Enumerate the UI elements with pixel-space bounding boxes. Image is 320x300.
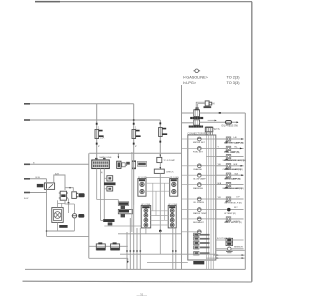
inner frame bottom <box>25 268 245 270</box>
fuel pump motor <box>59 191 68 200</box>
wire bundle vertical 3 <box>133 205 135 269</box>
wire stub left <box>101 220 103 222</box>
wire row y122.8 <box>182 122 194 124</box>
fuel pump relay label box <box>37 184 44 187</box>
right column row3 sedimenter lamp <box>216 155 246 163</box>
hour meter box <box>118 209 132 213</box>
lamp row y165.8 <box>182 164 244 171</box>
lamp row y218.9 <box>182 217 244 224</box>
wire to noise filter (double lead) <box>196 102 205 107</box>
inner bus wires <box>206 136 213 270</box>
svg-text:SENSOR: SENSOR <box>234 247 243 249</box>
svg-text:HOUR: HOUR <box>234 221 241 223</box>
lamp row y139.0 <box>182 137 244 144</box>
wire row y113 right to bus <box>200 112 246 114</box>
glyphs in stacked boxes <box>195 234 199 255</box>
lamp row y184.6 <box>182 183 244 190</box>
fuse F3 <box>159 122 168 142</box>
oil press sender (oval) <box>225 121 231 124</box>
svg-text:FUEL LAMP (R): FUEL LAMP (R) <box>225 151 240 154</box>
to fuel pump box C <box>160 155 162 157</box>
wire bundle vertical 2 <box>129 218 131 269</box>
lamp row y175.2 <box>182 173 244 180</box>
right column row5 sleep lamp <box>216 173 244 181</box>
junction left <box>46 230 48 232</box>
ignition coil component <box>194 110 200 117</box>
svg-text:I<GASOLINE>: I<GASOLINE> <box>183 76 209 80</box>
horn / buzzer circle <box>72 214 77 218</box>
label bar A <box>104 182 116 185</box>
spare comp square <box>121 206 125 210</box>
wire pair vertical b <box>175 228 177 269</box>
fuel pump relay <box>44 183 54 190</box>
fuse F2 <box>132 123 141 145</box>
svg-text:TO 2(3): TO 2(3) <box>227 76 241 80</box>
water temp sender component <box>205 127 213 132</box>
svg-text:OIL PRESS: OIL PRESS <box>193 202 205 204</box>
circled number 6 <box>195 69 199 73</box>
wire out bottom row c <box>206 257 244 259</box>
wires below main connector <box>97 169 101 221</box>
right column row6 warning lamp <box>216 183 244 191</box>
hour meter inner square <box>121 214 125 218</box>
aux connector 2 tab <box>122 163 125 167</box>
resistor box B <box>107 187 113 191</box>
svg-text:WARNING: WARNING <box>193 187 203 190</box>
lamp row y148.4 <box>182 146 244 153</box>
svg-text:F.CUT SOL (R): F.CUT SOL (R) <box>217 238 231 240</box>
svg-text:TO 3(3): TO 3(3) <box>227 81 241 85</box>
wire pump top link <box>65 188 74 191</box>
right column row9 lamp <box>216 217 244 223</box>
wire pin row link top strips b <box>146 190 170 192</box>
wire mesh vertical a <box>152 183 154 211</box>
labels right of stacked boxes <box>200 234 210 254</box>
svg-text:TO F.PUMP: TO F.PUMP <box>163 160 175 162</box>
resistor box A <box>107 176 113 181</box>
stub2 label start <box>24 178 30 180</box>
stacked boxes in lower connector box <box>194 233 199 255</box>
drop arrow <box>127 258 129 262</box>
svg-text:SEDIMENTER LAMP (R): SEDIMENTER LAMP (R) <box>223 159 247 162</box>
svg-text:METER SET: METER SET <box>193 142 206 144</box>
wire row y113 left <box>182 112 194 114</box>
svg-text:I<LPG>: I<LPG> <box>183 81 197 85</box>
stub3 label start <box>24 192 30 194</box>
svg-text:15A: 15A <box>100 137 105 140</box>
wire label start bus1 <box>24 103 30 105</box>
sender motor circle <box>54 212 61 219</box>
lead end dots <box>195 107 197 109</box>
strip3 bottom lead <box>145 228 147 234</box>
connector pin fill <box>93 161 108 167</box>
horizontal link y258.3 <box>89 257 128 259</box>
noise filter top component <box>205 101 212 106</box>
small square below <box>108 222 113 225</box>
fuse F1 <box>95 123 104 145</box>
wire pin row link bottom strips 3 <box>151 219 169 221</box>
wire bus B+ top <box>24 103 134 105</box>
pump connector label pill <box>79 193 85 197</box>
wire oil press sender row <box>200 121 238 123</box>
wire vertical to fuse F2 <box>133 104 135 205</box>
svg-text:MAIN FUSE: MAIN FUSE <box>100 156 112 159</box>
svg-text:OIL PRESS LP (R): OIL PRESS LP (R) <box>224 202 242 204</box>
wire relay to pump <box>54 175 65 190</box>
svg-text:GLOW LAMP: GLOW LAMP <box>193 177 206 180</box>
arrow box C to D <box>159 163 161 169</box>
svg-text:WARNING LAMP (R): WARNING LAMP (R) <box>223 187 243 190</box>
link to centre <box>47 235 89 237</box>
strip connector 2 <box>170 179 178 197</box>
lamp row y156.6 <box>206 155 244 162</box>
right column row4 charge lamp <box>216 164 244 172</box>
buzzer label pill <box>78 214 84 218</box>
wire code marks right column <box>218 137 239 199</box>
main harness connector <box>92 159 110 169</box>
svg-text:CHARGE: CHARGE <box>193 168 203 171</box>
lamp row y209.6 <box>182 208 244 215</box>
sender leads into connector box <box>207 132 213 135</box>
page top border <box>35 1 252 3</box>
svg-text:W.T.S: W.T.S <box>214 129 220 131</box>
svg-text:FUEL SET: FUEL SET <box>193 152 204 154</box>
wire out bottom row a <box>216 249 245 251</box>
connector relay box <box>188 135 216 260</box>
svg-text:CHECK: CHECK <box>166 172 174 174</box>
wire y226 to strip3 <box>104 225 141 227</box>
wire main vertical right section <box>181 85 183 269</box>
left long vertical wire <box>88 153 90 258</box>
svg-text:CHARGE LAMP (R): CHARGE LAMP (R) <box>223 168 242 171</box>
horizontal link y233.8 <box>118 233 182 235</box>
svg-text:GLOW LAMP (R): GLOW LAMP (R) <box>225 178 241 181</box>
spare comp row label <box>118 202 128 206</box>
main harness connector top wire <box>89 152 181 154</box>
thermo sensor symbol <box>216 247 244 253</box>
wire pin row link bottom strips 4 <box>151 224 169 226</box>
sender connector wire with ticks <box>68 199 70 214</box>
wire mesh vertical c <box>164 183 166 220</box>
pump connector <box>72 192 79 199</box>
wire bus2 <box>24 119 160 121</box>
right column row2 fuel lamp <box>216 146 244 154</box>
wire bundle vertical 5 <box>139 228 141 269</box>
feeds from pump area down <box>58 200 66 203</box>
wire label start bus2 <box>24 119 30 121</box>
svg-text:B-R: B-R <box>55 173 59 175</box>
arrow into connector <box>117 154 119 158</box>
link under box <box>147 262 188 264</box>
right column row8 dot <box>216 207 244 211</box>
wire pin row link top strips a <box>146 182 170 184</box>
left label bar <box>103 219 114 222</box>
link strips top <box>146 177 170 179</box>
lamp row y231.8 <box>182 230 201 237</box>
wire bundle vertical 1 <box>126 232 128 269</box>
arrowhead row b <box>242 254 244 256</box>
sender feeds <box>58 200 62 207</box>
wire below box D <box>159 173 161 231</box>
wire out bottom row b <box>213 254 245 256</box>
box D <box>154 169 164 173</box>
fuel sender unit box <box>52 208 63 223</box>
wire connector bottom chain <box>103 169 105 221</box>
strip connector 4 <box>168 206 176 228</box>
svg-text:O.P: O.P <box>236 197 240 199</box>
wire pin row link bottom strips 2 <box>151 215 169 217</box>
wire pair vertical a <box>172 228 174 269</box>
right column row1 battery lamp <box>216 137 244 145</box>
junction bus2/F2 <box>133 119 135 121</box>
svg-text:W.TEMP (R): W.TEMP (R) <box>224 213 236 215</box>
condenser blob <box>204 106 212 108</box>
page outer bottom border <box>23 280 252 283</box>
resistor on F2 wire <box>126 160 147 169</box>
wire long y254.2 <box>120 253 216 255</box>
strip connector 1 <box>138 179 146 197</box>
bundle connector ticks <box>126 250 176 252</box>
left stub wire 1 <box>24 163 89 165</box>
svg-text:SEDIMENT: SEDIMENT <box>193 222 204 224</box>
wire code marks right column <box>218 137 239 199</box>
junction dot centre <box>159 230 162 233</box>
wire mesh vertical b <box>155 191 157 215</box>
left stub wire 3 <box>24 192 47 194</box>
svg-text:OIL PRESS SW: OIL PRESS SW <box>221 126 238 128</box>
ignition coil label bar <box>190 117 203 119</box>
inner right bus vertical <box>244 113 246 269</box>
strip connector 3 <box>141 206 151 228</box>
wire pin row link bottom strips 1 <box>151 210 169 212</box>
oil pressure label bar <box>189 126 203 128</box>
aux connector 1 <box>117 161 121 168</box>
junction <box>69 187 71 189</box>
sender bottom wire <box>57 222 59 231</box>
svg-text:BATTERY LAMP (R): BATTERY LAMP (R) <box>225 141 244 144</box>
fuel cut solenoid block <box>216 238 244 246</box>
horizontal link y246.3 <box>89 245 128 247</box>
wire bundle vertical 4 <box>136 228 138 269</box>
fuel gauge label bar <box>59 225 67 228</box>
relay top feed <box>46 179 48 183</box>
right column row7 oil press lamp <box>216 197 244 201</box>
main relay label bar <box>193 261 204 264</box>
tick on y113 <box>219 112 221 114</box>
bottom link left section <box>47 230 75 232</box>
lamp row y199.0 <box>182 197 244 204</box>
svg-text:WATER TEMP: WATER TEMP <box>193 212 207 215</box>
arrowhead row c <box>242 257 244 259</box>
small arrow right of coil <box>208 119 216 121</box>
diode component 2 <box>111 242 120 250</box>
centre frame vertical left <box>131 152 133 232</box>
left stub wire 2 <box>24 178 47 180</box>
diode component 1 <box>96 242 105 250</box>
svg-text:HI: HI <box>212 103 215 106</box>
stub1 label start <box>24 163 30 165</box>
oil pressure unit component <box>194 120 200 125</box>
wire relay bottom down <box>46 189 48 236</box>
wire vertical to fuse F1 <box>96 104 98 160</box>
arrow end <box>237 121 239 123</box>
svg-text:—31—: —31— <box>137 293 148 297</box>
page right border <box>251 2 253 282</box>
wire bus2 turn down <box>159 120 161 157</box>
buzzer bottom wire <box>73 218 75 231</box>
buzzer feed <box>73 204 75 213</box>
